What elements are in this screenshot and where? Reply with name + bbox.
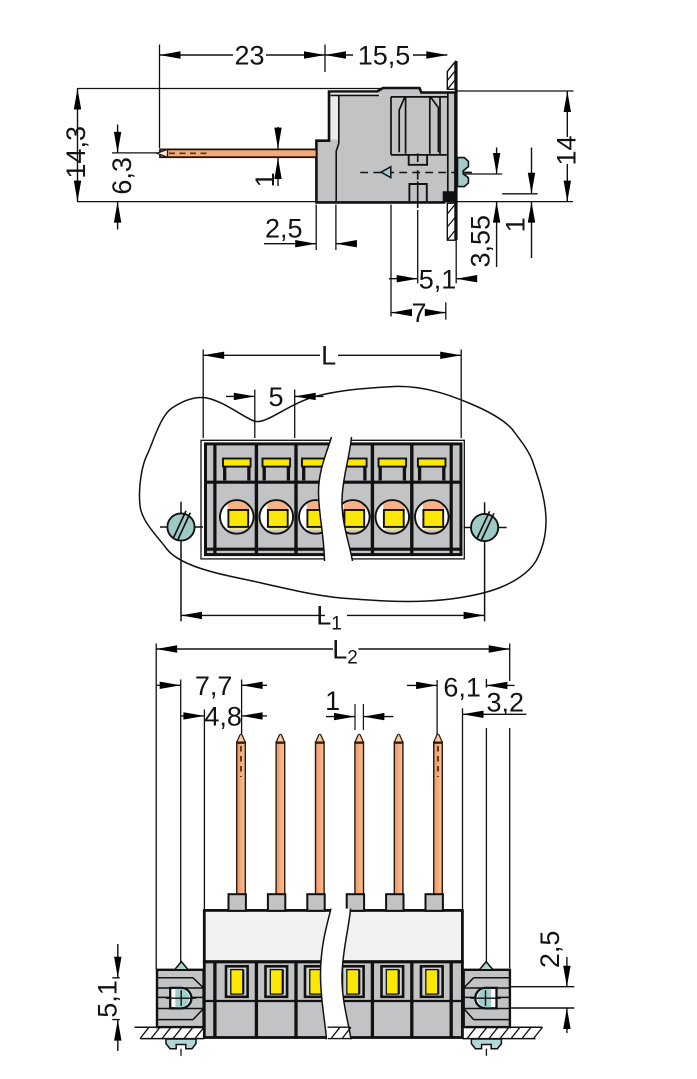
svg-text:5,1: 5,1 bbox=[419, 265, 457, 295]
svg-text:L: L bbox=[321, 341, 336, 371]
fixing screw right (front view) bbox=[464, 502, 507, 621]
dim 6,3 bbox=[107, 125, 157, 230]
direction arrow (teal wedge on centerline) bbox=[381, 167, 391, 178]
clamp circle cell 4 bbox=[336, 500, 370, 536]
terminal body lower section bbox=[204, 962, 462, 1038]
svg-text:6,3: 6,3 bbox=[107, 157, 137, 195]
svg-text:15,5: 15,5 bbox=[358, 41, 411, 71]
dim L bbox=[203, 341, 461, 439]
clamp circle cell 5 bbox=[375, 500, 409, 536]
svg-text:14: 14 bbox=[552, 135, 582, 165]
solder pin (side view) bbox=[157, 149, 317, 157]
PCB left segment bbox=[135, 1027, 205, 1038]
housing internal edge line (front step) bbox=[331, 95, 379, 202]
dim 1 (pin thickness) bbox=[250, 127, 282, 187]
lower horizontal cell line bbox=[206, 1000, 462, 1002]
cell dividers bbox=[256, 444, 411, 555]
cell dividers (bottom view) bbox=[215, 963, 451, 1037]
dim L1 bbox=[181, 601, 485, 635]
dim 2,5 bbox=[264, 205, 357, 251]
svg-text:5: 5 bbox=[268, 382, 283, 412]
svg-text:3,55: 3,55 bbox=[466, 215, 496, 268]
dashed centerline of side view bbox=[360, 172, 472, 174]
panel mount screw (side view, teal) bbox=[458, 158, 469, 187]
solder pin 5 bbox=[394, 734, 403, 916]
housing internal top line bbox=[391, 96, 447, 98]
screw axis extension right bbox=[485, 728, 487, 966]
contact slot cell 1 bbox=[226, 966, 248, 997]
screw axis extension left bbox=[180, 680, 182, 962]
svg-text:2,5: 2,5 bbox=[535, 931, 565, 969]
clamp circle cell 6 bbox=[415, 500, 449, 536]
end wall left bbox=[213, 444, 216, 555]
solder pin 1 bbox=[237, 734, 246, 916]
contact slot cell 6 bbox=[421, 966, 443, 997]
end wall right bbox=[450, 444, 453, 555]
body edge extension left bbox=[203, 710, 205, 910]
screw axis tick right bbox=[485, 679, 487, 688]
dim 1 (right step) bbox=[457, 148, 574, 259]
clamp circle cell 2 bbox=[259, 500, 293, 536]
svg-text:7,7: 7,7 bbox=[195, 671, 233, 701]
contact slot cell 3 bbox=[305, 966, 327, 997]
svg-text:2,5: 2,5 bbox=[265, 214, 303, 244]
pin 1 axis extension bbox=[241, 680, 243, 735]
body edge extension right bbox=[462, 708, 464, 909]
panel hatch section bottom bbox=[447, 203, 455, 240]
left mounting flange bbox=[157, 962, 204, 1028]
mounting screw head right bbox=[471, 1039, 501, 1056]
dim 3,2 bbox=[463, 688, 527, 719]
svg-text:23: 23 bbox=[234, 41, 264, 71]
PCB right segment bbox=[462, 1027, 542, 1038]
solder pin 2 bbox=[276, 734, 285, 916]
flange top tab bbox=[175, 962, 189, 970]
right mounting flange bbox=[464, 962, 510, 1028]
clamp circle cell 1 bbox=[220, 500, 254, 536]
solder pin 3 bbox=[316, 734, 325, 916]
dim 23 bbox=[160, 41, 326, 149]
panel wall line bbox=[455, 61, 458, 240]
svg-text:3,2: 3,2 bbox=[487, 688, 525, 718]
dim 5,1 (side view) bbox=[389, 205, 477, 317]
connector housing body (side view) bbox=[316, 88, 455, 202]
svg-text:7: 7 bbox=[411, 298, 426, 328]
terminal body upper light section bbox=[204, 910, 462, 961]
screw slot notch line bbox=[463, 171, 470, 173]
fixing screw left (front view) bbox=[160, 502, 203, 622]
dim 14,3 bbox=[61, 89, 381, 202]
svg-text:1: 1 bbox=[250, 172, 280, 187]
cloud break outline bbox=[139, 386, 546, 601]
contact slot cell 5 bbox=[382, 966, 404, 997]
panel hatch section top bbox=[447, 62, 455, 89]
PCB visible through break gap bbox=[328, 1027, 351, 1038]
dim 5 bbox=[226, 382, 324, 438]
break tear (bottom view) bbox=[321, 909, 352, 1040]
screw cavity outline bbox=[391, 93, 448, 193]
wire entry bars (yellow, upper row) bbox=[223, 459, 446, 481]
dim 15,5 bbox=[325, 41, 447, 71]
pin axis dashes (pins 1,4,6) bbox=[241, 746, 438, 777]
dim 3,55 bbox=[463, 148, 502, 268]
flange screw (D-head) bbox=[170, 988, 191, 1008]
screw cavity funnel lines bbox=[399, 97, 438, 154]
svg-text:1: 1 bbox=[501, 217, 531, 232]
pin 6 axis extension bbox=[436, 680, 438, 735]
dim 6,1 bbox=[407, 672, 515, 702]
flange screw (D-head) bbox=[475, 988, 496, 1008]
dim 2,5 (bottom) bbox=[510, 931, 574, 1033]
clamp circle cell 3 bbox=[299, 500, 333, 536]
contact slot cell 2 bbox=[266, 966, 288, 997]
svg-text:5,1: 5,1 bbox=[93, 980, 123, 1018]
body bottom-right step (black) bbox=[444, 193, 456, 203]
clamp lower box bbox=[409, 184, 426, 202]
upper/lower section lines bbox=[206, 482, 462, 549]
svg-text:4,8: 4,8 bbox=[204, 701, 242, 731]
dim L2 bbox=[156, 635, 510, 970]
dim 7 bbox=[391, 298, 446, 328]
mounting screw head left bbox=[166, 1039, 196, 1056]
terminal body (front view) bbox=[206, 444, 462, 555]
solder pin 4 bbox=[355, 734, 364, 916]
break tear (front view) bbox=[319, 437, 353, 561]
svg-text:1: 1 bbox=[325, 686, 340, 716]
dim 14 bbox=[455, 91, 581, 202]
clamp center axis line bbox=[417, 170, 419, 208]
thin outer rectangle (flange outline) bbox=[201, 440, 464, 559]
clamp upper box bbox=[409, 155, 427, 165]
svg-text:14,3: 14,3 bbox=[61, 126, 91, 179]
pin sockets on body top bbox=[229, 894, 443, 911]
dim 4,8 bbox=[181, 701, 267, 731]
dim 7,7 bbox=[157, 671, 268, 701]
solder pin 6 bbox=[434, 734, 443, 916]
dim 5,1 (bottom) bbox=[93, 944, 123, 1051]
section boundary line bbox=[204, 960, 462, 963]
svg-text:6,1: 6,1 bbox=[443, 672, 481, 702]
dim 1 (pin square) bbox=[325, 686, 393, 730]
clamp upper box center tick bbox=[417, 153, 419, 162]
flange top tab bbox=[479, 962, 493, 970]
contact slot cell 4 bbox=[342, 966, 364, 997]
housing light front panel accent bbox=[331, 93, 381, 140]
